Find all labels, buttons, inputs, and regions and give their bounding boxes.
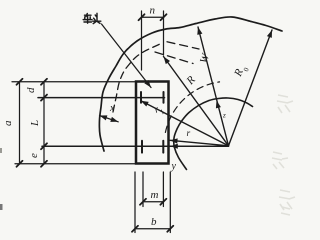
svg-text:z: z: [222, 112, 226, 120]
svg-text:d: d: [25, 87, 37, 93]
svg-text:a: a: [2, 120, 14, 126]
svg-text:b: b: [151, 216, 157, 228]
svg-text:L: L: [29, 120, 41, 127]
svg-text:m: m: [151, 189, 159, 201]
svg-text:e: e: [28, 153, 40, 158]
svg-text:n: n: [150, 5, 156, 17]
svg-text:y: y: [171, 161, 177, 172]
svg-text:x: x: [109, 103, 115, 114]
svg-text:r: r: [187, 129, 191, 139]
